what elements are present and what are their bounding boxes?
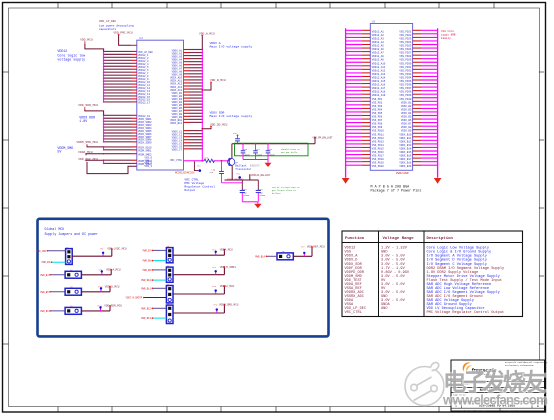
svg-text:VDD12_A10: VDD12_A10 xyxy=(372,62,386,65)
capacitor C32 xyxy=(256,180,265,202)
wire U2 right pin wires with bus junctions xyxy=(184,49,204,150)
svg-text:VSS_PD29: VSS_PD29 xyxy=(399,59,412,62)
svg-text:Function: Function xyxy=(345,236,365,241)
wire emitter down xyxy=(231,166,233,180)
svg-text:PMC Voltage: PMC Voltage xyxy=(184,181,204,185)
svg-text:Global MCU: Global MCU xyxy=(45,227,65,231)
svg-text:VDD12_17: VDD12_17 xyxy=(138,102,151,105)
svg-text:PWR_B13: PWR_B13 xyxy=(141,317,151,320)
svg-text:VDDX_B6: VDDX_B6 xyxy=(401,119,412,122)
svg-text:VDD12_A18: VDD12_A18 xyxy=(372,91,386,94)
svg-text:VSS_PD26: VSS_PD26 xyxy=(399,48,412,51)
wire PWR_B4 input xyxy=(40,274,65,277)
svg-text:VDDX_B9: VDDX_B9 xyxy=(401,130,412,133)
svg-text:VSS_PD22: VSS_PD22 xyxy=(399,34,412,37)
svg-text:VDDX_B17: VDDX_B17 xyxy=(399,158,412,161)
svg-text:VDDX_B4: VDDX_B4 xyxy=(401,112,412,115)
svg-text:VDD_A_MCU: VDD_A_MCU xyxy=(106,269,121,272)
jumper J7 xyxy=(166,283,173,303)
svg-text:电子发烧友: 电子发烧友 xyxy=(443,368,547,395)
svg-text:VDD12_A19: VDD12_A19 xyxy=(372,94,386,97)
svg-text:J2: J2 xyxy=(70,268,72,271)
svg-text:PWR_B6: PWR_B6 xyxy=(40,310,49,313)
ground arrow right xyxy=(434,178,442,184)
jumper J8 xyxy=(166,302,173,323)
capacitor C29 top xyxy=(233,132,240,144)
node VDD_REF_MCU left xyxy=(78,158,103,161)
jumper J6 xyxy=(166,264,173,282)
ground arrow left xyxy=(342,178,350,184)
section title xyxy=(45,227,98,236)
wire J6 output VDD_M_SMD xyxy=(173,266,236,275)
wire emitter node rail xyxy=(222,177,259,182)
svg-text:Package 7 of 7 Power Pins: Package 7 of 7 Power Pins xyxy=(371,189,422,194)
wire VRC_CTRL output xyxy=(184,160,205,162)
svg-text:VDDX_B5: VDDX_B5 xyxy=(401,116,412,119)
svg-text:VDDX_B1: VDDX_B1 xyxy=(401,101,412,104)
jumper J9 xyxy=(277,250,293,260)
svg-text:VSS_PD34: VSS_PD34 xyxy=(399,76,412,79)
svg-text:VDD_B_MCU: VDD_B_MCU xyxy=(210,79,226,82)
svg-text:VDDM_SMD_MCU: VDDM_SMD_MCU xyxy=(76,141,98,144)
svg-text:VDDX_B12: VDDX_B12 xyxy=(399,140,412,143)
VDDX B annotation xyxy=(210,111,253,119)
svg-text:VDD12_A17: VDD12_A17 xyxy=(372,87,386,90)
jumper J4 xyxy=(65,305,81,315)
svg-text:Transistor: Transistor xyxy=(235,167,252,171)
svg-text:VSS_PD7: VSS_PD7 xyxy=(372,119,383,122)
svg-text:VSS_PD31: VSS_PD31 xyxy=(399,66,412,69)
svg-text:PWR_B9: PWR_B9 xyxy=(143,269,152,272)
svg-text:VDDX_B11: VDDX_B11 xyxy=(170,122,183,125)
wire left power bus segments xyxy=(103,51,105,163)
svg-text:VDDX_B13: VDDX_B13 xyxy=(399,144,412,147)
svg-text:VDD12A_BALLAST: VDD12A_BALLAST xyxy=(251,174,271,177)
watermark text xyxy=(442,368,548,408)
svg-text:VDD12_A16: VDD12_A16 xyxy=(372,84,386,87)
svg-text:VDDA_MCU: VDDA_MCU xyxy=(220,248,233,251)
svg-text:Main I/O voltage supply: Main I/O voltage supply xyxy=(210,114,253,118)
svg-text:100NF: 100NF xyxy=(256,154,262,157)
svg-text:Main I/O voltage supply: Main I/O voltage supply xyxy=(210,45,253,49)
svg-text:VSS_PD12: VSS_PD12 xyxy=(372,137,385,140)
U2 left pin names and numbers xyxy=(138,51,154,166)
wire J7 output VDD12_MCU xyxy=(173,285,235,294)
svg-text:VDD_DD_MCU: VDD_DD_MCU xyxy=(210,123,228,126)
VDDX A annotation xyxy=(210,41,253,49)
watermark logo circle xyxy=(405,362,444,405)
svg-text:Output: Output xyxy=(184,189,195,192)
svg-text:C27: C27 xyxy=(256,148,259,151)
svg-text:VSS_PD2: VSS_PD2 xyxy=(372,101,383,104)
VRC CTRL annotation xyxy=(184,178,215,192)
wire J3 output VDD_D_MCU xyxy=(81,286,119,292)
svg-text:VDDM_SMD1: VDDM_SMD1 xyxy=(138,150,152,153)
capacitor C26 xyxy=(241,143,250,160)
transistor Q1 xyxy=(228,158,239,167)
svg-text:PWR_B11: PWR_B11 xyxy=(141,287,151,290)
capacitor C31 xyxy=(240,180,249,202)
svg-text:VDDX_B15: VDDX_B15 xyxy=(399,151,412,154)
V18 core annotation xyxy=(441,30,456,40)
svg-text:VSS_PD6: VSS_PD6 xyxy=(372,116,383,119)
capacitor C30 xyxy=(212,161,224,183)
svg-text:VSS_PD8: VSS_PD8 xyxy=(372,123,383,126)
svg-text:VDD12_A3: VDD12_A3 xyxy=(372,37,385,40)
svg-text:VDD12_A8: VDD12_A8 xyxy=(372,55,385,58)
test point TP2 xyxy=(194,161,201,172)
svg-text:VSS_PD21: VSS_PD21 xyxy=(399,30,412,33)
svg-text:Family: Family xyxy=(441,36,451,40)
junction node at base xyxy=(221,160,223,162)
wire PWR_B6 input xyxy=(40,310,65,313)
svg-text:VDDX_B3: VDDX_B3 xyxy=(401,108,412,111)
wire collector to rail xyxy=(231,144,233,158)
svg-text:mcu pwr balls: mcu pwr balls xyxy=(281,151,298,154)
svg-text:VSS_PD28: VSS_PD28 xyxy=(399,55,412,58)
wire PWR_B3 input xyxy=(42,261,66,264)
svg-text:VDD_SDR_MCU: VDD_SDR_MCU xyxy=(78,104,98,107)
svg-text:VSS_PD17: VSS_PD17 xyxy=(372,155,385,158)
svg-text:VDD_M_SMD1: VDD_M_SMD1 xyxy=(220,266,237,269)
section box Global MCU supply jumpers xyxy=(38,219,329,337)
svg-text:VDD_PM_BALLAST: VDD_PM_BALLAST xyxy=(313,136,334,139)
capacitor C27 xyxy=(253,143,262,160)
node VDD12A_BALLAST xyxy=(249,174,271,180)
wire PWR_B10 input xyxy=(141,279,166,282)
svg-text:PWR_VDD: PWR_VDD xyxy=(36,250,46,253)
svg-text:VSS_PD36: VSS_PD36 xyxy=(399,84,412,87)
svg-text:VSS_PD33: VSS_PD33 xyxy=(399,73,412,76)
svg-text:VSS_PD35: VSS_PD35 xyxy=(399,80,412,83)
decoupling group box xyxy=(235,143,309,156)
test point TP4 xyxy=(236,172,241,180)
node VDD_B_MCU xyxy=(202,79,226,90)
svg-text:PWR_B3: PWR_B3 xyxy=(42,261,51,264)
svg-text:PWR_B10: PWR_B10 xyxy=(141,279,151,282)
svg-text:VDDX_B14: VDDX_B14 xyxy=(399,147,412,150)
svg-text:VSS_PD20: VSS_PD20 xyxy=(372,165,385,168)
svg-text:PWR_B12: PWR_B12 xyxy=(141,307,151,310)
svg-text:VRC_CTRL: VRC_CTRL xyxy=(170,159,183,162)
svg-text:VDD12_A2: VDD12_A2 xyxy=(372,34,385,37)
svg-text:VDD_A_MCU: VDD_A_MCU xyxy=(199,33,215,36)
svg-text:Date:: Date: xyxy=(453,409,459,412)
svg-text:VSS_PD24: VSS_PD24 xyxy=(399,41,412,44)
VDD12 annotation xyxy=(57,49,85,61)
svg-text:VDD_SDR_MCU: VDD_SDR_MCU xyxy=(104,305,122,308)
svg-text:Logic 8MB: Logic 8MB xyxy=(441,32,456,36)
wire VDD ballast rail xyxy=(232,136,333,143)
svg-text:PWR_B5: PWR_B5 xyxy=(40,291,49,294)
svg-text:-: - xyxy=(381,311,383,315)
jumper J1 xyxy=(66,246,73,265)
svg-text:1.8V: 1.8V xyxy=(79,119,87,123)
wire PWR_B12 input xyxy=(141,307,166,310)
svg-text:MC9S12ZVMC256: MC9S12ZVMC256 xyxy=(175,171,195,174)
svg-text:VSS_3: VSS_3 xyxy=(144,165,152,168)
wire PWR_B9 input xyxy=(143,269,167,272)
svg-text:VSS_PD23: VSS_PD23 xyxy=(399,37,412,40)
svg-text:PWR_B8: PWR_B8 xyxy=(143,260,152,263)
svg-text:J9: J9 xyxy=(282,250,284,253)
svg-text:VDDX_B11: VDDX_B11 xyxy=(399,137,412,140)
svg-text:VSS_PD13: VSS_PD13 xyxy=(372,140,385,143)
power pins part U3 xyxy=(370,20,412,170)
svg-text:Voltage Range: Voltage Range xyxy=(383,236,415,241)
svg-text:PWR_B14: PWR_B14 xyxy=(255,255,265,258)
jumper J2 xyxy=(65,268,81,278)
svg-text:VDD12_A12: VDD12_A12 xyxy=(372,69,386,72)
node VDD_A_MCU top xyxy=(199,33,215,50)
svg-text:VSS_PD5: VSS_PD5 xyxy=(372,112,383,115)
svg-text:TP11: TP11 xyxy=(97,305,103,308)
svg-text:VSS_PD3: VSS_PD3 xyxy=(372,105,383,108)
wire cap ground bus xyxy=(243,160,272,168)
wire VSS return L xyxy=(87,162,137,174)
node VDD_MCU xyxy=(80,38,104,51)
node VDD_DD_MCU xyxy=(202,123,227,129)
svg-text:100NF: 100NF xyxy=(269,154,275,157)
svg-text:U2: U2 xyxy=(139,37,143,40)
svg-text:Preliminary Information: Preliminary Information xyxy=(505,364,534,367)
U2 right pin names xyxy=(144,49,182,168)
node VDDM_SMD_MCU xyxy=(76,141,103,147)
svg-text:VDD12_A6: VDD12_A6 xyxy=(372,48,385,51)
wire J8 output VDDM_SMD_MCU xyxy=(173,304,239,313)
svg-text:VSS_PD19: VSS_PD19 xyxy=(372,162,385,165)
svg-text:VDD_REF_MCU: VDD_REF_MCU xyxy=(307,246,325,249)
svg-text:VDDX_SDR9: VDDX_SDR9 xyxy=(138,142,152,145)
green note lower xyxy=(272,186,300,195)
svg-text:VSS_PD38: VSS_PD38 xyxy=(399,91,412,94)
svg-text:VDD12_A7: VDD12_A7 xyxy=(372,52,385,55)
svg-text:VDDT_M_SMDTP: VDDT_M_SMDTP xyxy=(126,297,143,300)
MCU U2 xyxy=(137,37,195,175)
svg-text:100NF: 100NF xyxy=(244,154,250,157)
svg-text:VDDX_B10: VDDX_B10 xyxy=(399,133,412,136)
wire PWR_B7 input xyxy=(143,249,167,252)
resistor R10 xyxy=(204,157,214,175)
svg-text:VDD12_A14: VDD12_A14 xyxy=(372,76,386,79)
svg-text:VDDX_C7: VDDX_C7 xyxy=(172,149,183,152)
svg-text:100NF: 100NF xyxy=(243,194,249,197)
svg-text:VSS_PD1: VSS_PD1 xyxy=(372,98,383,101)
freescale logo xyxy=(463,362,498,375)
svg-text:VDD12_A1: VDD12_A1 xyxy=(372,30,385,33)
svg-text:VRC_CTRL: VRC_CTRL xyxy=(345,311,362,315)
svg-text:ballast: ballast xyxy=(272,192,281,195)
svg-text:VDD_D_MCU: VDD_D_MCU xyxy=(105,286,120,289)
svg-text:VDD12_A9: VDD12_A9 xyxy=(372,59,385,62)
svg-text:VSS_PD27: VSS_PD27 xyxy=(399,52,412,55)
svg-text:VDD_LP_DEC: VDD_LP_DEC xyxy=(99,20,117,23)
wire U3 left bus xyxy=(345,28,347,178)
node VDD_SDR_MCU xyxy=(78,104,103,115)
svg-text:VDDX_B7: VDDX_B7 xyxy=(401,123,412,126)
wire right power bus xyxy=(201,50,203,161)
svg-text:VSS_PD30: VSS_PD30 xyxy=(399,62,412,65)
node VDD_LP_DEC annotation xyxy=(99,20,134,31)
VDDX DDR annotation xyxy=(79,116,95,124)
wire PWR_B5 input xyxy=(40,291,65,294)
capacitor C28 xyxy=(266,143,275,160)
svg-text:VDD_PMC_MCU: VDD_PMC_MCU xyxy=(113,31,132,34)
svg-text:VDDX_B18: VDDX_B18 xyxy=(399,162,412,165)
svg-text:VSS_PD40: VSS_PD40 xyxy=(399,98,412,101)
svg-text:Supply Jumpers and DC power: Supply Jumpers and DC power xyxy=(45,232,98,236)
svg-text:U3: U3 xyxy=(372,20,376,23)
svg-text:VDD12: VDD12 xyxy=(57,49,67,53)
svg-text:VSS_PD18: VSS_PD18 xyxy=(372,158,385,161)
svg-text:voltage supply: voltage supply xyxy=(57,57,85,61)
svg-text:V18 Core: V18 Core xyxy=(441,30,454,33)
wire U2 left pin wires with bus junctions xyxy=(103,51,137,165)
green box note xyxy=(281,148,300,154)
svg-text:PWR_B7: PWR_B7 xyxy=(143,249,152,252)
svg-text:PMC Voltage Regulator Control: PMC Voltage Regulator Control Output xyxy=(427,310,505,315)
svg-text:VDDX_B16: VDDX_B16 xyxy=(399,155,412,158)
svg-text:VSS_PD9: VSS_PD9 xyxy=(372,126,383,129)
svg-text:VDD_LVDC_MCU: VDD_LVDC_MCU xyxy=(107,248,127,251)
svg-text:VSS_PD32: VSS_PD32 xyxy=(399,69,412,72)
wire U3 right bus xyxy=(437,28,439,178)
svg-text:VDD12_A15: VDD12_A15 xyxy=(372,80,386,83)
wire PWR_B13 input xyxy=(141,317,166,320)
svg-text:Ballast: Ballast xyxy=(235,164,247,168)
svg-text:Sheet 2 of 9: Sheet 2 of 9 xyxy=(505,409,520,412)
svg-text:VDDX_B8: VDDX_B8 xyxy=(401,126,412,129)
wire J4 output VDD_SDR_MCU xyxy=(81,305,122,311)
node VDDA_MCU left xyxy=(78,151,104,155)
svg-text:VDD12_A5: VDD12_A5 xyxy=(372,45,385,48)
svg-text:VRC CTRL: VRC CTRL xyxy=(184,178,199,181)
wire J5 output VDDA_MCU xyxy=(173,248,233,255)
wire U3 pin wires xyxy=(346,30,438,165)
svg-text:VSS_PD14: VSS_PD14 xyxy=(372,144,385,147)
VDDM_SMD annotation xyxy=(57,146,73,154)
svg-text:VDDX_B2: VDDX_B2 xyxy=(401,105,412,108)
svg-text:VSS_PD37: VSS_PD37 xyxy=(399,87,412,90)
wire J2 output VDD_A_MCU xyxy=(81,269,121,275)
svg-text:VDD12_A11: VDD12_A11 xyxy=(372,66,386,69)
U3 pin names xyxy=(372,30,412,168)
svg-text:Low power decoupling: Low power decoupling xyxy=(99,23,134,27)
wire cap pair ground xyxy=(242,202,261,208)
wire PWR_B8 input xyxy=(143,260,167,263)
wire PWR_B14 input xyxy=(255,255,277,258)
svg-text:100NF: 100NF xyxy=(259,194,265,197)
jumper J5 xyxy=(166,245,173,263)
svg-text:VSS_PD16: VSS_PD16 xyxy=(372,151,385,154)
wire PWR_B11 input xyxy=(141,287,166,290)
wire J9 output VDD_REF_MCU xyxy=(293,246,325,257)
wire PWR_VDD input 1 xyxy=(36,250,65,253)
svg-text:VSS_PD15: VSS_PD15 xyxy=(372,147,385,150)
svg-text:VDD12_A4: VDD12_A4 xyxy=(372,41,385,44)
svg-text:VSS_PD39: VSS_PD39 xyxy=(399,94,412,97)
svg-text:VDD12_A13: VDD12_A13 xyxy=(372,73,386,76)
svg-text:TP10: TP10 xyxy=(98,286,104,289)
wire VDD_M_SMDT input xyxy=(126,297,167,300)
svg-text:VDD12_MCU: VDD12_MCU xyxy=(220,285,235,288)
svg-text:Description: Description xyxy=(427,236,454,241)
svg-text:capacitors: capacitors xyxy=(99,27,117,31)
svg-text:Monday, April 07, 2008: Monday, April 07, 2008 xyxy=(460,409,487,412)
jumper J3 xyxy=(65,285,81,295)
svg-text:PWR_B4: PWR_B4 xyxy=(40,274,49,277)
svg-text:Regulator Control: Regulator Control xyxy=(184,185,215,189)
wire J1 output VDD_LVDC_MCU xyxy=(72,248,127,257)
svg-text:J7: J7 xyxy=(167,283,169,286)
Q1 annotation Ballast NJD2873 Transistor xyxy=(235,164,260,171)
title block xyxy=(451,360,548,412)
node VDD_PMC_MCU xyxy=(113,31,136,45)
svg-text:VDD12_BALLAST: VDD12_BALLAST xyxy=(227,177,244,180)
svg-text:VSS_PD4: VSS_PD4 xyxy=(372,108,383,111)
voltage table xyxy=(342,231,523,317)
svg-text:PWR/GND: PWR/GND xyxy=(396,171,409,175)
svg-text:VSS_PD11: VSS_PD11 xyxy=(372,133,385,136)
svg-text:www.elecfans.com: www.elecfans.com xyxy=(442,393,548,408)
svg-text:VDDX_B19: VDDX_B19 xyxy=(399,165,412,168)
svg-text:VDD_MCU: VDD_MCU xyxy=(80,38,93,41)
U3 bottom caption xyxy=(371,171,422,194)
svg-text:VSS_PD10: VSS_PD10 xyxy=(372,130,385,133)
svg-text:5V: 5V xyxy=(57,149,61,153)
svg-text:VSS_PD25: VSS_PD25 xyxy=(399,45,412,48)
svg-text:VDDM_SMD_MCU: VDDM_SMD_MCU xyxy=(219,304,239,307)
